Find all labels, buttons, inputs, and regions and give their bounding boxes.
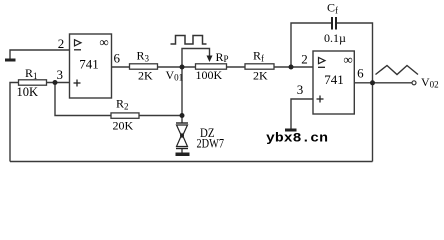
resistor R2	[111, 113, 139, 118]
wire: RP to resistor Rf	[227, 66, 246, 68]
svg-text:ybx8.cn: ybx8.cn	[266, 131, 328, 146]
wire: left vertical up to R1	[10, 83, 19, 162]
op-amp U1 box	[70, 34, 112, 98]
zener DZ bottom bar	[176, 148, 188, 150]
svg-text:2K: 2K	[253, 69, 268, 83]
node V01 junction dot	[180, 65, 185, 70]
zener DZ lower diode triangle	[177, 134, 188, 147]
wire: resistor R1 to node B to U1 pin 3	[47, 82, 70, 84]
op-amp U1 minus dash	[74, 49, 81, 51]
triangle wave annotation	[376, 66, 419, 75]
wire: Cf feedback top branch	[291, 23, 331, 67]
op-amp U1 triangle symbol	[75, 40, 82, 46]
svg-text:0.1µ: 0.1µ	[324, 31, 346, 45]
resistor R3	[130, 64, 158, 69]
R2 junction dot	[180, 113, 185, 118]
node B junction dot	[53, 80, 58, 85]
resistor Rf	[245, 64, 274, 69]
svg-text:2: 2	[58, 36, 65, 51]
wire: bottom rail	[10, 161, 373, 163]
svg-text:3: 3	[297, 82, 304, 97]
zener DZ top bar	[176, 122, 188, 124]
wire: node B down to resistor R2	[55, 83, 111, 116]
wire: RP wiper loop from node V01	[182, 49, 210, 67]
op-amp U2 triangle symbol	[319, 58, 326, 64]
svg-text:20K: 20K	[113, 119, 134, 133]
wire: U2 pin 6 to output node	[355, 82, 373, 84]
op-amp U2 minus dash	[318, 66, 325, 68]
capacitor Cf plates	[332, 17, 336, 30]
svg-text:∞: ∞	[343, 52, 352, 67]
wire: output node to terminal V02	[373, 82, 413, 84]
svg-text:741: 741	[79, 56, 99, 71]
resistor R1	[19, 80, 47, 85]
svg-text:6: 6	[113, 51, 120, 66]
ground (zener)	[176, 153, 190, 157]
wire: right vertical feedback down	[372, 83, 374, 162]
wire: U2 pin 3 to ground branch	[291, 99, 314, 129]
potentiometer RP	[196, 64, 227, 69]
op-amp U1 plus sign	[74, 80, 81, 87]
square wave annotation	[171, 36, 207, 45]
wire: R2 to zener node	[139, 115, 182, 117]
wire: zener DZ to ground	[181, 149, 183, 154]
op-amp U2 box	[313, 51, 354, 114]
svg-text:6: 6	[357, 66, 364, 81]
wire: capacitor Cf right plate to right vertical	[337, 23, 373, 83]
wire: U1 pin 6 to resistor R3	[111, 66, 130, 68]
node A junction dot (Cf / U2 pin2)	[289, 65, 294, 70]
wire: R3 to node V01 to potentiometer RP	[158, 66, 196, 68]
wire: ground to op-amp U1 pin 2	[10, 50, 69, 59]
svg-text:10K: 10K	[17, 85, 39, 99]
output terminal circle	[412, 81, 416, 85]
wire: node V01 down through zener node to zener DZ	[181, 67, 183, 123]
zener DZ junction dot	[180, 134, 184, 138]
ground (U2 pin 3)	[285, 129, 297, 132]
svg-text:2: 2	[301, 52, 308, 67]
svg-text:100K: 100K	[196, 68, 223, 82]
ground (top-left)	[5, 59, 16, 62]
op-amp U2 plus sign	[317, 96, 324, 103]
output node junction dot	[370, 80, 375, 85]
zener DZ upper diode triangle	[177, 125, 188, 137]
RP wiper arrow	[207, 56, 213, 63]
svg-text:2K: 2K	[138, 69, 153, 83]
svg-text:∞: ∞	[99, 35, 108, 50]
svg-text:2DW7: 2DW7	[197, 135, 225, 150]
wire: Rf to node A to op-amp U2 pin 2	[274, 66, 314, 68]
svg-text:3: 3	[56, 67, 63, 82]
svg-text:741: 741	[324, 72, 344, 87]
